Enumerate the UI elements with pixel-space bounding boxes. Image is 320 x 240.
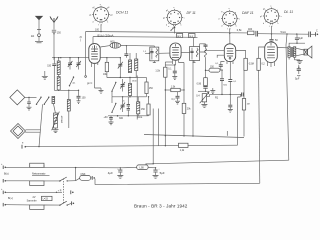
resistor R3 "1,5k" horizontal (165, 86, 185, 91)
svg-text:SLR: SLR (189, 36, 194, 38)
svg-text:150: 150 (57, 31, 62, 34)
wire: V4 pin stubs (268, 62, 275, 67)
svg-text:B(+): B(+) (8, 197, 13, 200)
capacitor C "1μF" (tone) (295, 34, 304, 44)
oscillator coupling coil L-600 (110, 40, 121, 48)
resistor R1g "10k" (V1 grid) (100, 57, 108, 78)
choke L6 "Dros." (137, 97, 143, 119)
svg-text:+30: +30 (104, 116, 109, 119)
wire: antenna horizontal y=57.7 (52, 57, 89, 58)
wire: HT rail A left (86, 32, 248, 33)
bus 2 (return line) (26, 145, 238, 147)
tube socket U3 (DAF 11 base view) (218, 8, 240, 31)
terminal E (bus2 left) (22, 143, 26, 149)
svg-text:5μF: 5μF (295, 78, 300, 81)
wire: bus1 right riser to R8 (243, 70, 245, 136)
resistor R8 (244, 58, 254, 70)
ground: transformer secondary (295, 57, 303, 63)
capacitor C "5μF" with label (295, 65, 301, 81)
switch S-band a (69, 76, 74, 86)
capacitor C-out series on rail (309, 32, 316, 38)
svg-text:g1: g1 (260, 16, 262, 18)
antenna A (50, 17, 58, 30)
svg-text:g4: g4 (110, 14, 112, 16)
svg-text:5μF: 5μF (160, 171, 165, 175)
label "Netzansatz" (32, 172, 50, 176)
label "2V Sammler" (27, 196, 37, 203)
capacitor C "0,1c" (on cathode drop) (228, 80, 237, 83)
wire: V3 pin stubs (227, 61, 233, 64)
wire: riser x=158.4 to bus2 (157, 109, 159, 146)
bus 1 (AVC line) (144, 135, 244, 138)
label "+30" with cap and ground (104, 116, 114, 125)
svg-text:DAF 11: DAF 11 (242, 11, 254, 15)
wire: stub socket U2 down with arrow (168, 26, 175, 34)
svg-text:600: 600 (110, 40, 115, 43)
oscillator coil L5a (128, 53, 131, 73)
ground: pot bottom (201, 105, 207, 108)
wire: stub socket U3 to tube V3 (229, 28, 230, 43)
svg-text:Braun - BR 3 - Jahr 1942: Braun - BR 3 - Jahr 1942 (134, 204, 188, 209)
resistor R5 "0,9k" (197, 77, 208, 85)
svg-text:g2: g2 (263, 9, 265, 11)
label "(0)" (80, 36, 83, 42)
svg-text:0,5k: 0,5k (237, 29, 242, 32)
svg-text:g2: g2 (166, 10, 168, 12)
capacitor C-ground (V3 cathode) (228, 105, 233, 112)
label F1 value "1Ω" (31, 34, 34, 38)
svg-text:1Ω: 1Ω (31, 34, 34, 38)
wire: row2 lead (6, 180, 60, 182)
svg-text:g: g (221, 11, 222, 13)
resistor R4 ".02k" (182, 103, 191, 113)
oscillator coil L5b (135, 53, 138, 78)
electrolytic C10 "4μF" (117, 167, 123, 178)
wire: riser x=153 to L3 (153, 109, 154, 165)
switch S-net a (59, 177, 75, 182)
svg-text:LSK: LSK (140, 167, 145, 170)
svg-text:B1(c) (2)5mA: B1(c) (2)5mA (98, 34, 114, 38)
wire: V3 anode to R8/R9 tops (236, 47, 265, 58)
box "L=33" (42, 196, 53, 200)
svg-text:d: d (218, 18, 219, 20)
label "100" on rail A (95, 29, 100, 32)
wire: V3 diode plate 2 (217, 55, 224, 58)
IF transformer T2 (can) (181, 37, 199, 62)
speaker LS (296, 46, 312, 58)
svg-text:d: d (92, 22, 93, 24)
connector box row2 (30, 181, 44, 186)
terminal C (battery +) (316, 30, 319, 37)
svg-text:Dros.: Dros. (137, 116, 143, 119)
svg-text:g3: g3 (107, 7, 109, 9)
terminal row3 + (1, 188, 6, 194)
capacitor C "0,1b" with ground (172, 92, 181, 104)
resistor R-rail "0,5k" (237, 29, 254, 35)
wire: V1 pin stubs (92, 62, 98, 69)
label T1 "1,5" (143, 51, 147, 53)
tube V2 DF11 envelope (170, 43, 181, 60)
wire: osc mesh y=77.5 (107, 77, 136, 78)
wire: output stage downlead (286, 34, 289, 160)
connector box row1 (30, 163, 44, 167)
output transformer T3 (277, 43, 305, 59)
svg-text:g1: g1 (89, 14, 91, 16)
capacitor C "100" (77, 90, 87, 103)
terminal row2 - (3, 179, 6, 183)
wire: row3 lead (6, 190, 74, 194)
pickup diamond J1 (10, 90, 25, 105)
wire: stub socket U4 down (271, 26, 273, 39)
svg-text:1μF: 1μF (299, 37, 304, 40)
svg-text:g2: g2 (92, 7, 94, 9)
svg-text:400: 400 (248, 28, 253, 31)
wire: L3 left stub (146, 163, 154, 165)
wire: L4 to L5 ferrite (53, 104, 55, 114)
resistor R6 "150" (diode load, oval) (205, 66, 221, 72)
svg-text:1M: 1M (247, 104, 250, 106)
label "2 R" (58, 190, 62, 192)
svg-text:k: k (107, 22, 108, 24)
label "13000" (132, 80, 137, 82)
resistor LSK box (120, 165, 155, 170)
dashed link: switch gang (63, 179, 65, 205)
label "300" (119, 117, 124, 120)
svg-text:4μF: 4μF (108, 171, 113, 175)
svg-text:DCH 11: DCH 11 (116, 11, 128, 15)
label "4μF" (108, 171, 113, 175)
label U3 "DAF 11" (242, 11, 254, 15)
resistor R2 "1,5k" (V2 cathode) (155, 62, 172, 146)
label switch contacts "a11" (72, 83, 76, 85)
svg-text:100: 100 (95, 29, 100, 32)
label "R1" (215, 97, 219, 100)
wire: riser x=259.8 (output cathode) (259, 70, 260, 183)
wire: vertical feeder x=85.6 (85, 32, 87, 78)
svg-text:300: 300 (119, 117, 124, 120)
coil L4 small (52, 97, 55, 104)
wire: long line L3 to output stage (146, 160, 289, 164)
svg-text:k: k (278, 23, 279, 25)
ground: antenna coil (42, 71, 48, 79)
svg-text:B(s): B(s) (4, 173, 9, 176)
wire: diode plate feed (205, 50, 225, 51)
wire: row1 mains lead (6, 166, 120, 169)
wire: row4 lead (6, 204, 60, 206)
tube socket U2 (DF 11 base view) (163, 7, 185, 30)
lightning arrester F1 (35, 16, 43, 43)
oscillator coil L5c (128, 78, 131, 97)
capacitor C-j1 with ground (27, 97, 32, 110)
svg-text:NSK: NSK (81, 173, 86, 176)
wire: osc mesh y=96.8 (112, 92, 147, 98)
trimmer C-osc2 (120, 79, 125, 92)
wire: pot wiper to R1 line (207, 94, 210, 96)
wire: stub socket U1 to rail A (100, 24, 101, 32)
switch S-net b (59, 201, 74, 206)
capacitor C-rail "400" (248, 28, 258, 37)
svg-text:C: C (316, 30, 318, 33)
resistor R-bus2 (179, 143, 189, 152)
wire: mesh bottom y=115.8 (108, 115, 149, 117)
svg-text:L=33: L=33 (43, 199, 49, 201)
tube V4 DL11 envelope (265, 42, 278, 62)
wire: V2 pin stubs (173, 60, 179, 65)
tube socket U4 (DL 11 base view) (260, 6, 282, 29)
wire: J2 twin lead (25, 130, 40, 132)
label "B(s)" (4, 173, 9, 176)
svg-text:s: s (184, 17, 185, 19)
trimmer C-osc1 (107, 57, 123, 78)
svg-text:BFV: BFV (177, 36, 182, 38)
label U2 "DF 11" (187, 11, 196, 15)
wire: AVC line y=90.3 (54, 90, 79, 91)
svg-text:100: 100 (82, 97, 87, 100)
label "2x500" (123, 101, 126, 103)
connector box row4 (30, 205, 44, 209)
svg-text:0,96: 0,96 (197, 83, 202, 85)
svg-text:1,5k: 1,5k (155, 70, 160, 73)
capacitor C-grid4 (269, 39, 278, 42)
resistor R "150b" (141, 96, 150, 116)
resistor R9 (257, 58, 266, 70)
switch S2a (111, 82, 116, 92)
antenna coil L1a (57, 57, 60, 75)
svg-text:g1: g1 (163, 17, 165, 19)
potentiometer P1 "0,4" (196, 92, 209, 104)
filter box "BFV" (177, 34, 183, 38)
capacitor C-grid3 "0,1" (215, 62, 224, 71)
resistor R-osc "150" (136, 78, 153, 97)
caption title (134, 204, 188, 209)
label node "gn C" (87, 82, 92, 85)
wire: V1 anode to L-600 to IF1 (100, 45, 154, 47)
wire: pot top junction (198, 91, 210, 92)
ground: pot right (210, 88, 215, 93)
terminal NSK out (92, 176, 95, 180)
pickup diamond J2 (double) (11, 124, 26, 139)
detector coupling coil L-det (200, 44, 208, 78)
resistor R7 "1M" (on riser) (242, 99, 250, 111)
switch S1b (44, 97, 50, 106)
svg-text:Sammler: Sammler (27, 199, 37, 202)
capacitor C-pad (hanging) (124, 46, 128, 58)
capacitor C "0,1" (V2 cathode bypass) (165, 64, 177, 79)
svg-text:DF 11: DF 11 (187, 11, 196, 15)
wire: J1 riser to bus2 (39, 104, 43, 147)
wire: T1 to V2 grid (159, 52, 170, 54)
svg-text:s: s (281, 16, 282, 18)
switch S2b (111, 97, 116, 113)
svg-text:gn C: gn C (87, 82, 92, 85)
capacitor C-ant2 "150" series on antenna lead (47, 58, 56, 91)
capacitor C-ant (antenna series) (52, 30, 62, 60)
label rail B "B1(c)·(2)5mA" (98, 34, 114, 38)
coil L2 (67, 90, 70, 128)
IF transformer T1 (can) (145, 47, 159, 63)
wire: rail B (screen feed) (93, 37, 198, 45)
wire: R1 line y=94.4 (210, 94, 242, 95)
svg-text:k: k (236, 26, 237, 28)
filter box "SLR" (189, 34, 196, 38)
svg-text:k: k (181, 25, 182, 27)
label "5mA" (281, 30, 287, 34)
ground: osc mesh left (95, 69, 104, 93)
wire: V3 cathode drop x=230.3 (229, 62, 231, 105)
wire: riser x=75.6 rows1-2 (75, 167, 76, 181)
ground: mid right x=227 y=110 (226, 131, 228, 136)
trimmer C-osc3 (120, 97, 125, 112)
svg-text:MW LW: MW LW (62, 116, 64, 123)
capacitor C-pot (203, 86, 207, 92)
label "5μF" (160, 171, 165, 175)
svg-text:d: d (221, 26, 222, 28)
svg-text:5mA: 5mA (281, 30, 287, 34)
capacitor C "2x500" (127, 97, 130, 116)
trimmer C-t1 (68, 57, 73, 70)
ferrite coil L3 (MW/LW) (52, 112, 64, 133)
svg-text:0,5M: 0,5M (249, 64, 254, 66)
wire: bus2 right riser (238, 94, 241, 145)
wire: T2 secondary riser x=193 (192, 60, 194, 136)
bottom bus (battery minus) (95, 179, 260, 185)
wire: J1 to switch (25, 97, 37, 98)
switch S1a (36, 97, 42, 106)
svg-text:DL 11: DL 11 (284, 10, 293, 14)
label "B(+)" (8, 197, 13, 200)
tube V3 DAF11 envelope (224, 44, 235, 62)
capacitor C "500" (220, 69, 228, 94)
trimmer C-t2 (76, 57, 81, 70)
tube socket U1 (DCH 11 base view) (89, 4, 112, 27)
wire: HT rail A right (258, 33, 308, 35)
antenna coil L1b (57, 75, 60, 91)
label U1 "DCH 11" (116, 11, 128, 15)
svg-text:+ R: + R (58, 190, 62, 192)
choke NSK (76, 173, 92, 181)
electrolytic C11 "5μF" (153, 167, 161, 178)
svg-text:d: d (263, 23, 264, 25)
terminal row4 - (3, 203, 6, 207)
terminal row1 + (1, 163, 6, 169)
capacitor C-avc (series on R1 line) (242, 93, 244, 97)
svg-text:s: s (239, 18, 240, 20)
wire: V2 screen riser x=184 (179, 63, 185, 136)
svg-text:Netzansatz: Netzansatz (32, 172, 46, 176)
wire: osc riser x=137 (136, 76, 138, 120)
svg-text:d: d (166, 25, 167, 27)
label U4 "DL 11" (284, 10, 293, 14)
tube V1 DCH11 envelope (89, 44, 100, 64)
